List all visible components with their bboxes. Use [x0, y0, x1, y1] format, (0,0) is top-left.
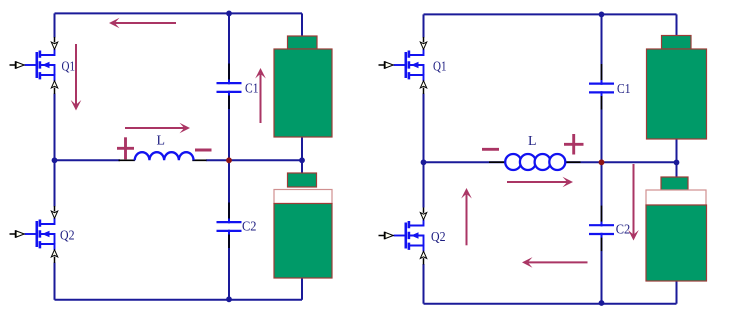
svg-text:C2: C2: [242, 218, 257, 233]
svg-text:Q1: Q1: [433, 59, 447, 74]
svg-text:Q2: Q2: [60, 228, 75, 243]
svg-text:C2: C2: [616, 222, 631, 237]
svg-text:C1: C1: [245, 81, 259, 96]
svg-text:Q1: Q1: [62, 59, 76, 74]
svg-text:L: L: [528, 133, 537, 148]
svg-text:L: L: [157, 133, 166, 148]
svg-text:C1: C1: [617, 81, 631, 96]
svg-text:Q2: Q2: [431, 229, 446, 244]
